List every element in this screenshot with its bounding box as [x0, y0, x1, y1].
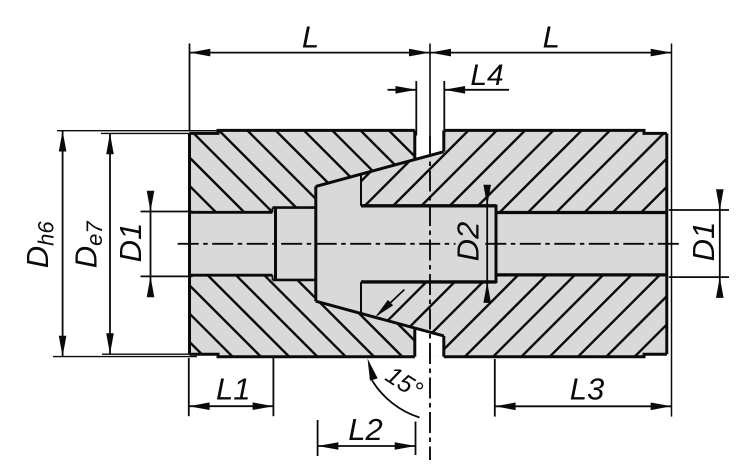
svg-text:D1: D1	[686, 222, 721, 262]
svg-text:D2: D2	[451, 222, 486, 262]
svg-text:D1: D1	[113, 223, 148, 263]
svg-text:L3: L3	[570, 372, 604, 407]
svg-text:L4: L4	[470, 59, 503, 92]
svg-text:Dh6: Dh6	[20, 221, 58, 269]
svg-text:L1: L1	[216, 372, 250, 407]
svg-text:L: L	[543, 20, 560, 55]
svg-text:De7: De7	[69, 221, 107, 269]
svg-text:L2: L2	[348, 412, 382, 447]
svg-text:L: L	[302, 20, 319, 55]
